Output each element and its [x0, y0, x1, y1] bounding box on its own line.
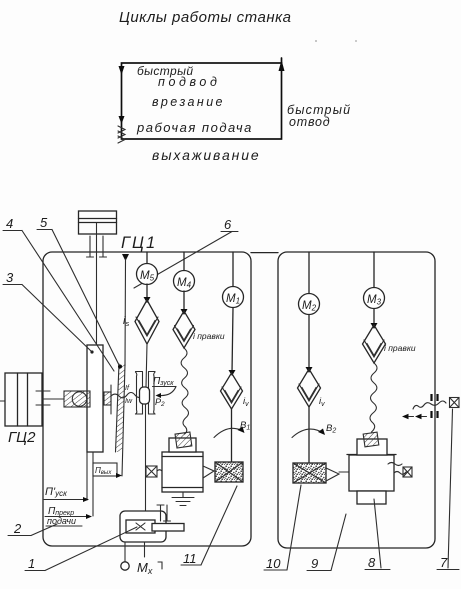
- svg-text:ГЦ1: ГЦ1: [121, 234, 157, 252]
- svg-text:ГЦ2: ГЦ2: [8, 429, 36, 446]
- svg-text:11: 11: [183, 551, 197, 566]
- svg-text:6: 6: [224, 217, 232, 232]
- svg-text:рабочая подача: рабочая подача: [136, 120, 253, 135]
- svg-text:1: 1: [28, 556, 35, 571]
- svg-text:выхаживание: выхаживание: [152, 147, 261, 163]
- svg-text:4: 4: [6, 216, 13, 231]
- svg-text:2: 2: [13, 521, 22, 536]
- svg-text:i правки: i правки: [384, 343, 416, 353]
- svg-text:Iw: Iw: [125, 398, 133, 405]
- svg-text:3: 3: [6, 270, 14, 285]
- svg-text:отвод: отвод: [289, 115, 330, 129]
- svg-text:9: 9: [311, 556, 318, 571]
- svg-text:10: 10: [266, 556, 281, 571]
- svg-text:подачи: подачи: [47, 516, 76, 526]
- svg-text:5: 5: [40, 215, 48, 230]
- svg-text:врезание: врезание: [152, 95, 225, 109]
- svg-text:i правки: i правки: [193, 331, 225, 341]
- svg-text:подвод: подвод: [158, 75, 220, 89]
- svg-text:8: 8: [368, 555, 376, 570]
- svg-text:7: 7: [440, 555, 448, 570]
- svg-text:Циклы работы станка: Циклы работы станка: [119, 9, 292, 26]
